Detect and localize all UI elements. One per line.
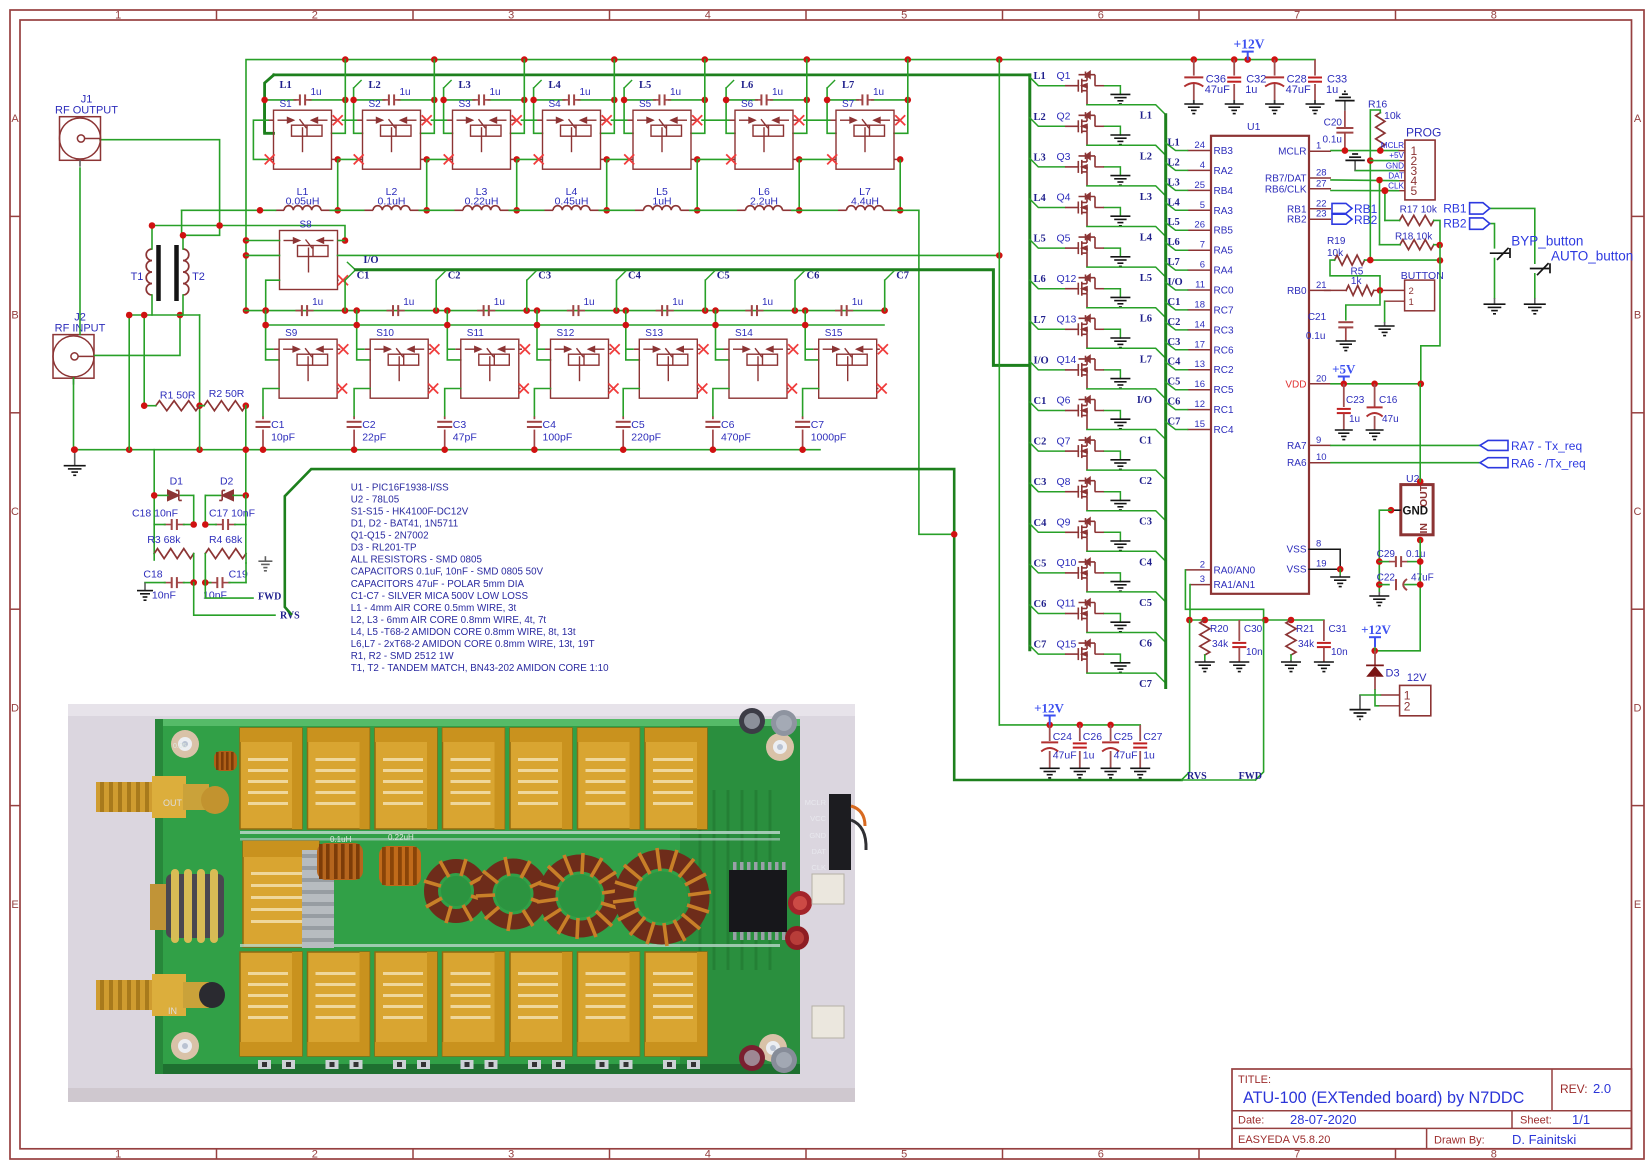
- svg-text:4: 4: [1200, 160, 1205, 171]
- svg-text:S14: S14: [735, 328, 753, 339]
- svg-text:C7: C7: [811, 419, 825, 431]
- svg-text:5: 5: [1200, 200, 1205, 211]
- relay S11: [461, 328, 519, 398]
- svg-text:7: 7: [1294, 9, 1300, 21]
- svg-text:2: 2: [312, 9, 318, 21]
- wire drain to ground: [1095, 614, 1121, 623]
- relay S4: [543, 99, 601, 169]
- svg-text:S1: S1: [280, 99, 293, 110]
- svg-text:+12V: +12V: [1234, 37, 1265, 52]
- svg-text:2: 2: [1409, 286, 1414, 297]
- relay S5: [633, 99, 691, 169]
- inductor L5 1uH: [635, 186, 689, 210]
- wire BUTTON pin1 ground: [1384, 301, 1386, 322]
- svg-text:18: 18: [1194, 299, 1205, 310]
- svg-text:R16: R16: [1368, 99, 1387, 111]
- ground (C31): [1314, 662, 1334, 672]
- svg-text:Date:: Date:: [1238, 1115, 1264, 1127]
- U1 pin 11 RC0: [1188, 280, 1234, 297]
- ground (C30): [1229, 662, 1249, 672]
- svg-text:D1: D1: [170, 476, 184, 488]
- svg-text:CAPACITORS 47uF - POLAR 5mm DI: CAPACITORS 47uF - POLAR 5mm DIA: [351, 579, 525, 590]
- svg-text:L6,L7 - 2xT68-2 AMIDON CORE 0.: L6,L7 - 2xT68-2 AMIDON CORE 0.8mm WIRE, …: [351, 639, 595, 650]
- ground (C16): [1366, 430, 1384, 440]
- svg-text:RB5: RB5: [1214, 226, 1234, 237]
- relay S14: [729, 328, 787, 398]
- svg-text:R19: R19: [1327, 236, 1346, 247]
- svg-text:S6: S6: [741, 99, 754, 110]
- svg-text:1u: 1u: [584, 297, 595, 308]
- svg-text:C1: C1: [357, 271, 370, 282]
- ground (drain): [1110, 94, 1130, 104]
- svg-text:R17 10k: R17 10k: [1400, 204, 1438, 215]
- svg-text:VSS: VSS: [1286, 545, 1306, 556]
- svg-text:RB6/CLK: RB6/CLK: [1265, 184, 1307, 195]
- svg-text:L1: L1: [1168, 138, 1180, 149]
- svg-text:10nF: 10nF: [152, 589, 176, 601]
- svg-text:+5V: +5V: [1389, 151, 1404, 160]
- svg-text:24: 24: [1194, 140, 1205, 151]
- svg-text:1: 1: [1316, 141, 1321, 152]
- PCB photograph inset: [68, 704, 866, 1102]
- wire T1/T2 bottom rail: [126, 312, 203, 450]
- net flag I/O (S8): [347, 255, 379, 270]
- capacitor C36 47uF: [1184, 60, 1230, 104]
- svg-text:S4: S4: [549, 99, 562, 110]
- wire inductor row: [599, 207, 701, 214]
- net flag L6 (U1): [1166, 237, 1188, 250]
- ground (drain): [1110, 500, 1130, 510]
- capacitor C21 0.1u: [1306, 290, 1380, 342]
- wire J2 shell ground: [71, 378, 78, 453]
- svg-text:C6: C6: [1034, 599, 1047, 610]
- microcontroller U1 PIC16F1938: [1211, 121, 1309, 594]
- wire relay contacts: [611, 115, 732, 210]
- wire transistor output bus (thick): [1164, 115, 1167, 688]
- svg-text:8: 8: [1316, 539, 1321, 550]
- net flag C5 (drive): [705, 271, 729, 311]
- resistor R17 10k: [1385, 204, 1440, 245]
- svg-text:5: 5: [901, 9, 907, 21]
- svg-text:28: 28: [1316, 168, 1327, 179]
- svg-text:2: 2: [1200, 559, 1205, 570]
- ground (drain): [1110, 663, 1130, 673]
- svg-text:S10: S10: [376, 328, 394, 339]
- wire drain to ground: [1095, 289, 1121, 298]
- svg-text:R21: R21: [1296, 624, 1315, 635]
- svg-text:AUTO_button: AUTO_button: [1551, 248, 1633, 263]
- power flag +12V (top): [1234, 37, 1265, 61]
- net flag L4 (gate): [1030, 193, 1065, 208]
- wire +5V vertical: [1367, 110, 1374, 260]
- svg-text:1000pF: 1000pF: [811, 432, 847, 444]
- U1 pin 8 VSS: [1286, 539, 1331, 556]
- svg-text:16: 16: [1194, 379, 1205, 390]
- transistor Q5 2N7002: [1057, 232, 1096, 267]
- svg-text:1u: 1u: [1245, 84, 1257, 96]
- svg-text:1u: 1u: [1143, 750, 1155, 762]
- svg-text:Q10: Q10: [1057, 557, 1077, 569]
- net flag C7 (U1): [1166, 417, 1188, 430]
- wire inductor row: [182, 207, 341, 214]
- ground (drain): [1110, 582, 1130, 592]
- svg-text:Q1-Q15 - 2N7002: Q1-Q15 - 2N7002: [351, 531, 429, 542]
- svg-text:47u: 47u: [1382, 414, 1399, 425]
- U1 pin 2 RA0/AN0: [1185, 559, 1255, 576]
- svg-text:C23: C23: [1346, 395, 1365, 406]
- svg-text:1u: 1u: [772, 87, 783, 98]
- net flag C7 (drive): [885, 271, 909, 311]
- wire relay contacts: [431, 115, 539, 210]
- svg-text:C2: C2: [1168, 317, 1181, 328]
- wire L7 coil net: [827, 81, 836, 134]
- svg-text:MCLR: MCLR: [805, 798, 827, 807]
- svg-text:C4: C4: [628, 271, 642, 282]
- net flag FWD (detector): [205, 571, 281, 603]
- wire relay contacts: [701, 115, 832, 210]
- capacitor C3 47pF: [437, 417, 477, 450]
- svg-text:A: A: [11, 113, 19, 125]
- svg-text:Q15: Q15: [1057, 638, 1077, 650]
- svg-text:10: 10: [1316, 452, 1327, 463]
- wire bottom bus RVS-FWD: [1182, 779, 1256, 781]
- net flag L2 (gate): [1030, 112, 1065, 127]
- svg-text:47uF: 47uF: [1114, 750, 1138, 762]
- svg-text:7: 7: [1200, 240, 1205, 251]
- wire source to bus: [1087, 348, 1166, 358]
- svg-text:OUT: OUT: [163, 798, 183, 808]
- svg-text:C1: C1: [1139, 436, 1152, 447]
- svg-text:0.1uH: 0.1uH: [377, 196, 405, 208]
- svg-text:TITLE:: TITLE:: [1238, 1074, 1271, 1086]
- ground (main bus): [64, 450, 86, 476]
- wire S8 right contact: [338, 240, 346, 242]
- wire source to bus: [1087, 592, 1166, 602]
- net flag I/O (U1): [1166, 277, 1188, 290]
- capacitor C4 100pF: [527, 417, 572, 450]
- voltage regulator U2 78L05: [1401, 473, 1433, 543]
- net flag L3 (gate): [1030, 152, 1065, 167]
- svg-text:22pF: 22pF: [362, 432, 386, 444]
- net flag FWD (bottom): [1239, 620, 1264, 782]
- svg-text:S15: S15: [825, 328, 843, 339]
- net flag L6 (gate): [1030, 274, 1065, 289]
- wire T1 top: [149, 222, 220, 229]
- wire source to bus: [1087, 186, 1166, 196]
- transistor Q3 2N7002: [1057, 151, 1096, 186]
- svg-text:B: B: [11, 310, 18, 322]
- wire +12V cap bank feed: [1314, 59, 1316, 61]
- svg-text:L6: L6: [1034, 274, 1046, 285]
- svg-text:L3: L3: [1168, 177, 1180, 188]
- wire coil drop: [353, 311, 370, 360]
- transistor Q11 2N7002: [1057, 598, 1096, 633]
- wire J1 shell ground: [79, 168, 81, 335]
- wire source to bus: [1087, 145, 1166, 155]
- svg-text:L1: L1: [1140, 111, 1152, 122]
- wire PROG +5V: [1370, 160, 1398, 162]
- capacitor C23 1u: [1337, 384, 1365, 430]
- wire inductor row: [689, 207, 803, 214]
- wire R1/R2 junction: [200, 405, 204, 407]
- net flag RA6 - /Tx_req: [1480, 456, 1586, 470]
- wire DAT: [1331, 177, 1399, 245]
- svg-text:L2: L2: [1140, 151, 1152, 162]
- svg-text:C5: C5: [1139, 598, 1152, 609]
- capacitor 1u (across S11 coil): [444, 297, 530, 316]
- svg-text:Q3: Q3: [1057, 151, 1071, 163]
- svg-text:1u: 1u: [580, 87, 591, 98]
- svg-text:C1-C7 - SILVER MICA 500V LOW L: C1-C7 - SILVER MICA 500V LOW LOSS: [351, 591, 529, 602]
- U1 pin 5 RA3: [1188, 200, 1234, 217]
- wire drain to ground: [1095, 654, 1121, 663]
- svg-text:C20: C20: [1324, 118, 1343, 129]
- svg-text:C30: C30: [1244, 624, 1263, 635]
- svg-text:RC2: RC2: [1214, 365, 1234, 376]
- net flag C1 (drive): [345, 271, 369, 311]
- svg-text:D2: D2: [220, 476, 234, 488]
- ground (12V conn): [1350, 695, 1371, 719]
- svg-text:19: 19: [1316, 559, 1327, 570]
- svg-text:RA4: RA4: [1214, 266, 1234, 277]
- ground (R20): [1195, 660, 1215, 672]
- U1 pin 21 RB0: [1287, 280, 1331, 297]
- wire RA1 to RVS bus: [1189, 585, 1191, 620]
- capacitor C33 1u: [1308, 60, 1347, 104]
- capacitor C7 1000pF: [795, 417, 846, 450]
- svg-text:C6: C6: [1168, 397, 1181, 408]
- wire L2 coil net: [354, 81, 363, 134]
- resistor R3 68k: [147, 534, 193, 583]
- wire inductor row: [791, 207, 904, 214]
- svg-text:C24: C24: [1053, 731, 1072, 743]
- diode D3 RL201: [1366, 651, 1399, 690]
- U1 pin 9 RA7: [1287, 435, 1331, 452]
- inductor L6 2.2uH: [737, 186, 791, 210]
- svg-text:8: 8: [1491, 9, 1497, 21]
- ground (C26): [1070, 768, 1090, 778]
- wire source to bus: [1087, 470, 1166, 480]
- svg-text:22: 22: [1316, 198, 1327, 209]
- resistor R18 10k: [1380, 231, 1443, 249]
- svg-text:L3: L3: [1140, 192, 1152, 203]
- relay S7: [836, 99, 894, 169]
- svg-text:REV:: REV:: [1560, 1082, 1588, 1096]
- svg-text:L7: L7: [842, 80, 854, 91]
- svg-text:C3: C3: [1139, 517, 1152, 528]
- svg-text:R1 50R: R1 50R: [160, 389, 196, 401]
- svg-text:47uF: 47uF: [1205, 84, 1230, 96]
- svg-text:Q5: Q5: [1057, 232, 1071, 244]
- ground (C33): [1306, 104, 1325, 114]
- svg-text:12: 12: [1194, 399, 1205, 410]
- U1 pin 26 RB5: [1188, 220, 1234, 237]
- U1 pin 18 RC7: [1188, 299, 1234, 316]
- svg-text:1: 1: [1409, 297, 1414, 308]
- U1 pin 28 RB7/DAT: [1265, 168, 1331, 185]
- wire +12V top bus: [243, 56, 1315, 314]
- net flag C4 (drive): [617, 271, 642, 311]
- svg-text:47pF: 47pF: [453, 432, 477, 444]
- net flag C4 (U1): [1166, 357, 1188, 370]
- net flag C6 (drive): [795, 271, 819, 311]
- svg-text:RB1: RB1: [1443, 202, 1467, 216]
- capacitor C32 1u: [1227, 60, 1266, 104]
- svg-text:RA2: RA2: [1214, 166, 1234, 177]
- svg-text:5: 5: [1411, 184, 1418, 198]
- svg-text:RB1: RB1: [1287, 204, 1307, 215]
- ground (drain): [1110, 338, 1130, 348]
- svg-text:RC5: RC5: [1214, 385, 1234, 396]
- svg-text:R20: R20: [1210, 624, 1229, 635]
- svg-text:R4 68k: R4 68k: [209, 534, 243, 546]
- svg-text:C7: C7: [896, 271, 909, 282]
- ground (C28): [1265, 104, 1284, 114]
- capacitor C2 22pF: [347, 417, 387, 450]
- svg-text:DAT: DAT: [1388, 171, 1404, 180]
- svg-text:D3 - RL201-TP: D3 - RL201-TP: [351, 543, 417, 554]
- notes text block: [351, 483, 609, 674]
- svg-text:47uF: 47uF: [1411, 573, 1434, 584]
- svg-text:34k: 34k: [1298, 639, 1315, 650]
- wire I/O thick bus: [355, 270, 1029, 366]
- resistor R5 1k: [1325, 267, 1405, 296]
- svg-text:S13: S13: [645, 328, 663, 339]
- svg-text:2: 2: [312, 1148, 318, 1160]
- wire coil drop: [802, 311, 819, 360]
- wire inductor row: [509, 207, 611, 214]
- svg-text:D3: D3: [1386, 668, 1400, 680]
- transistor Q15 2N7002: [1057, 638, 1096, 673]
- ground (U2): [1369, 592, 1389, 606]
- ground (AUTO): [1524, 298, 1546, 314]
- svg-text:GND: GND: [809, 831, 826, 840]
- wire coil drop: [712, 311, 729, 360]
- svg-text:13: 13: [1194, 359, 1205, 370]
- wire U2 IN to +12V: [1371, 540, 1423, 654]
- U1 pin 6 RA4: [1188, 260, 1234, 277]
- wire T2 top: [180, 210, 223, 238]
- U1 pin 3 RA1/AN1: [1190, 574, 1256, 591]
- svg-text:Drawn By:: Drawn By:: [1434, 1135, 1485, 1147]
- wire coil drop: [534, 311, 551, 360]
- capacitor C27 1u: [1133, 725, 1162, 768]
- wire drain to ground: [1095, 329, 1121, 338]
- wire U2 GND: [1376, 507, 1401, 592]
- U1 pin 10 RA6: [1287, 452, 1331, 469]
- wire drain to ground: [1095, 208, 1121, 217]
- svg-text:4: 4: [705, 1148, 711, 1160]
- capacitor C24 47uF: [1041, 725, 1076, 768]
- svg-text:B: B: [1634, 310, 1641, 322]
- svg-text:1u: 1u: [400, 87, 411, 98]
- svg-text:C5: C5: [1168, 377, 1181, 388]
- svg-text:L2, L3 - 6mm AIR CORE 0.8mm WI: L2, L3 - 6mm AIR CORE 0.8mm WIRE, 4t, 7t: [351, 615, 547, 626]
- svg-text:ALL RESISTORS - SMD 0805: ALL RESISTORS - SMD 0805: [351, 555, 483, 566]
- capacitor C19 10nF: [202, 563, 248, 601]
- transistor Q9 2N7002: [1057, 517, 1096, 552]
- svg-text:D: D: [1634, 702, 1642, 714]
- svg-text:8: 8: [1491, 1148, 1497, 1160]
- transformer T2: [177, 235, 205, 315]
- ground (drain): [1110, 541, 1130, 551]
- resistor R4 68k: [205, 534, 246, 583]
- svg-text:C2: C2: [448, 271, 461, 282]
- svg-text:S5: S5: [639, 99, 652, 110]
- svg-text:Q6: Q6: [1057, 395, 1071, 407]
- ground (BUTTON): [1375, 322, 1395, 336]
- svg-text:Q14: Q14: [1057, 354, 1077, 366]
- svg-text:220pF: 220pF: [631, 432, 661, 444]
- svg-text:1: 1: [115, 1148, 121, 1160]
- capacitor C5 220pF: [616, 417, 661, 450]
- svg-text:GND: GND: [1386, 161, 1404, 170]
- ground (VSS): [1330, 575, 1350, 587]
- svg-text:1: 1: [115, 9, 121, 21]
- net flag C2 (drive): [436, 271, 460, 311]
- svg-text:0.1u: 0.1u: [1406, 549, 1425, 560]
- ground (BYP): [1484, 298, 1506, 314]
- resistor R1 50R: [141, 389, 200, 410]
- svg-text:S11: S11: [467, 328, 484, 339]
- svg-text:C18: C18: [143, 569, 162, 581]
- svg-text:1u: 1u: [672, 297, 683, 308]
- power flag +12V (bottom): [1034, 701, 1064, 725]
- svg-text:+5V: +5V: [1332, 362, 1356, 377]
- svg-text:14: 14: [1194, 319, 1205, 330]
- wire relay contacts: [521, 115, 630, 210]
- svg-text:RA7 - Tx_req: RA7 - Tx_req: [1511, 439, 1582, 453]
- svg-text:1k: 1k: [1351, 276, 1363, 287]
- inductor L7 4.4uH: [838, 186, 892, 210]
- svg-text:20: 20: [1316, 373, 1327, 384]
- svg-text:C3: C3: [1168, 337, 1181, 348]
- svg-text:C27: C27: [1143, 731, 1162, 743]
- svg-text:0.05: 0.05: [173, 743, 187, 750]
- net flag L7 (gate): [1030, 315, 1065, 330]
- wire relay contacts: [342, 115, 449, 210]
- svg-text:RC4: RC4: [1214, 425, 1234, 436]
- svg-text:T2: T2: [192, 271, 205, 283]
- capacitor C30 10n: [1232, 620, 1262, 662]
- wire L5 coil net: [624, 81, 633, 134]
- svg-text:Q1: Q1: [1057, 70, 1071, 82]
- connector BUTTON: [1385, 270, 1444, 311]
- net flag L4 (U1): [1166, 197, 1188, 210]
- svg-text:C25: C25: [1114, 731, 1133, 743]
- transistor Q6 2N7002: [1057, 395, 1096, 430]
- transistor Q14 2N7002: [1057, 354, 1096, 389]
- relay S13: [639, 328, 697, 398]
- capacitor 1u (across S14 coil): [712, 297, 798, 316]
- svg-text:C2: C2: [362, 419, 376, 431]
- svg-text:T1: T1: [131, 271, 144, 283]
- wire relay contacts: [713, 344, 798, 416]
- diode D1: [154, 476, 194, 501]
- wire RVS long route: [285, 469, 1182, 780]
- switch AUTO_button: [1530, 248, 1634, 298]
- relay S6: [735, 99, 793, 169]
- capacitor C22 47uF: [1377, 573, 1434, 591]
- svg-text:D1, D2 - BAT41, 1N5711: D1, D2 - BAT41, 1N5711: [351, 519, 458, 530]
- svg-text:C1: C1: [1034, 396, 1047, 407]
- wire +12V drop: [894, 60, 908, 134]
- svg-text:L7: L7: [1168, 257, 1180, 268]
- svg-text:5: 5: [901, 1148, 907, 1160]
- U1 pin 7 RA5: [1188, 240, 1234, 257]
- capacitor C1 10pF: [256, 417, 296, 450]
- svg-text:0.1u: 0.1u: [1323, 135, 1342, 146]
